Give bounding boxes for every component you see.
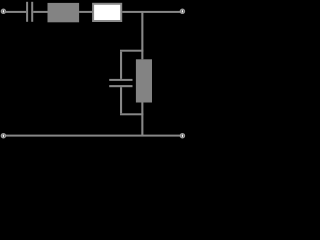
capacitor C1 (series) <box>26 2 33 22</box>
wire: L2 to bottom rail <box>141 103 143 136</box>
wire: L1 to R1 <box>79 11 92 13</box>
wire: C2 top lead <box>120 52 122 79</box>
terminal: input port top-left <box>1 9 5 13</box>
inductor L1 (filled box) <box>48 3 80 22</box>
terminal: common bottom-left <box>1 134 5 138</box>
terminal: output port top-right <box>180 9 184 13</box>
terminal: common bottom-right <box>180 134 184 138</box>
wire: shunt branch from top rail down to L2 <box>141 11 143 59</box>
wire: C2 bottom stub to shunt wire <box>120 113 143 115</box>
resistor R1 (white box) <box>93 4 121 21</box>
wire: C2 bottom lead <box>120 87 122 113</box>
wire: top-left terminal to C1 <box>5 11 26 13</box>
wire: C1 to L1 <box>33 11 47 13</box>
inductor L2 (filled box, shunt) <box>136 59 152 102</box>
wire: bottom rail <box>5 135 180 137</box>
wire: C2 top stub to shunt node <box>120 50 143 52</box>
wire: R1 to top-right terminal <box>122 11 180 13</box>
capacitor C2 (shunt) <box>109 79 132 87</box>
